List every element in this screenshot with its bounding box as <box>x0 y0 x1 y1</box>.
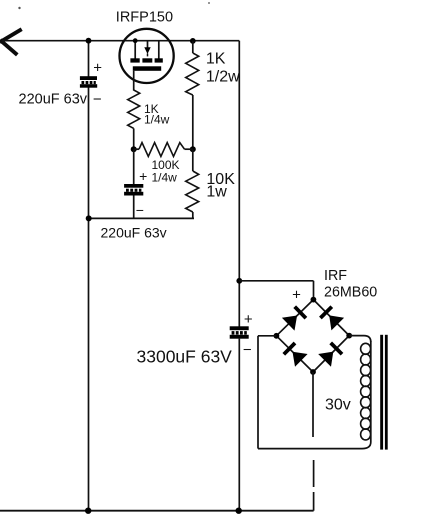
wire: box bottom horizontal <box>258 448 362 450</box>
capacitor C2 220uF 63v (polarized) <box>124 184 143 196</box>
wire: right rail x=239.3 (below cap C3 to bottom rail) <box>238 339 240 511</box>
node: top rail / left rail junction <box>86 38 92 44</box>
edge T-L <box>276 300 313 336</box>
node: bridge top vertex <box>311 297 317 303</box>
svg-text:1/4w: 1/4w <box>152 170 178 184</box>
node: bridge bottom vertex <box>310 369 316 375</box>
resistor R3 100K 1/4w (horizontal) <box>134 148 139 150</box>
wire: left rail x=88.5 (top segment to cap C1) <box>88 41 90 77</box>
body circle <box>120 29 174 83</box>
node: left stub on top rail <box>133 38 138 43</box>
svg-text:220uF 63v: 220uF 63v <box>101 225 167 241</box>
svg-text:30v: 30v <box>325 397 351 414</box>
right stub <box>158 41 160 59</box>
svg-text:−: − <box>243 342 252 359</box>
svg-text:−: − <box>136 202 144 218</box>
svg-text:+: + <box>93 59 102 76</box>
capacitor C3 3300uF 63V (polarized) <box>230 326 249 338</box>
diode D4 (B to R) <box>318 343 342 367</box>
wire: bridge negative output (down from bottom vertex, crossing gap) <box>312 372 314 437</box>
diode D1 (L to T) <box>282 307 306 331</box>
wire: right vertex to transformer coil <box>349 336 371 342</box>
svg-text:+: + <box>139 168 147 184</box>
svg-text:220uF 63v: 220uF 63v <box>19 91 88 107</box>
three pads <box>130 58 139 62</box>
svg-text:3300uF 63V: 3300uF 63V <box>137 347 233 367</box>
node: left rail / bottom rail junction <box>85 508 91 514</box>
svg-text:1K: 1K <box>206 51 226 68</box>
svg-text:26MB60: 26MB60 <box>324 285 377 301</box>
capacitor C1 220uF 63v (top left, polarized) <box>80 76 97 88</box>
wide bar <box>133 66 161 71</box>
diode D3 (B to L) <box>284 343 308 367</box>
wire: left rail x=88.5 (below cap C1 to bottom) <box>88 87 90 510</box>
node: left rail / bus junction <box>86 215 92 221</box>
svg-text:IRFP150: IRFP150 <box>116 10 173 26</box>
wire: top rail y=40.7 <box>2 40 239 42</box>
svg-text:+: + <box>292 286 301 303</box>
speck artifact top <box>18 7 20 9</box>
bridge rectifier BR1 26MB60 <box>276 300 349 372</box>
node: right rail / bridge feed junction <box>236 278 242 284</box>
node: right rail / bottom rail junction <box>236 508 242 514</box>
middle stub with down arrow <box>147 41 149 48</box>
wire: left vertex to box left <box>258 335 276 337</box>
edge B-R <box>313 336 349 372</box>
node: bridge left vertex <box>274 333 280 339</box>
node A: gate rail / 100K junction <box>131 146 137 152</box>
node B: mid rail / 100K junction <box>190 146 196 152</box>
svg-text:+: + <box>244 311 253 328</box>
wire: coil bottom corner to box bottom <box>362 442 371 449</box>
wire: node A down to capacitor C2 <box>133 149 135 184</box>
transformer T1 coil loops <box>361 343 371 440</box>
wire: bottom rail y=510.7 <box>0 510 314 512</box>
edge T-R <box>313 300 349 336</box>
wire: C2 bottom lead <box>133 196 135 219</box>
svg-text:1/4w: 1/4w <box>144 113 170 127</box>
svg-text:IRF: IRF <box>324 268 347 284</box>
edge B-L <box>276 336 313 372</box>
transformer T1 winding spine <box>370 341 372 442</box>
resistor R2 1K 1/4w (below mosfet) <box>128 90 140 128</box>
svg-text:1w: 1w <box>206 184 227 201</box>
transformer T1 core bars <box>380 335 383 450</box>
mosfet Q1 IRFP150 <box>120 29 174 91</box>
gate lead down from wide bar <box>133 71 135 91</box>
wire: right rail x=239.3 (top wire corner down to cap C3) <box>238 41 240 327</box>
wire: box left vertical <box>257 336 259 449</box>
input arrow (left-pointing) <box>2 30 21 53</box>
resistor R1 1K 1/2w <box>192 41 194 53</box>
node: top rail / mid rail junction <box>190 38 196 44</box>
wire: R2 bottom to node A <box>133 128 135 149</box>
svg-text:−: − <box>93 91 102 108</box>
svg-text:1/2w: 1/2w <box>206 68 240 85</box>
node: bridge right vertex <box>346 333 352 339</box>
left stub <box>134 41 136 59</box>
diode D2 (R to T) <box>320 307 344 331</box>
resistor R4 10K 1w <box>192 149 194 171</box>
wire: horizontal bus y=218.4 <box>89 217 195 219</box>
wire: bridge feed vertical drop <box>313 281 315 300</box>
wire: bridge feed horizontal <box>239 280 313 282</box>
